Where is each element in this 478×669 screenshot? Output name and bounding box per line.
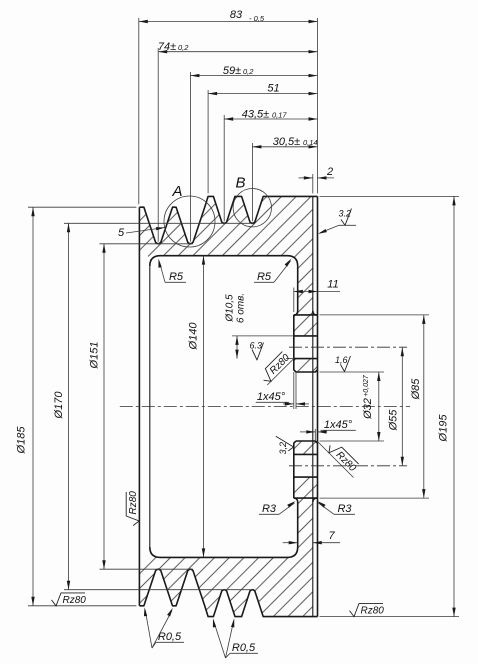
boss left face lower <box>294 441 296 498</box>
hatching boss band below bore <box>294 441 318 454</box>
ext line O185 bottom <box>28 605 136 607</box>
web right fillet to boss bottom <box>313 498 317 502</box>
detail circle A <box>164 196 215 247</box>
boss top surface O85 <box>294 314 318 316</box>
bore top edge O32 with chamfers <box>296 370 318 372</box>
bolt hole top edge (lower hole) <box>294 453 318 455</box>
hatching rim+web top section <box>139 196 317 336</box>
svg-text:1,6: 1,6 <box>335 355 348 365</box>
roughness Rz80 leader at lower bore corner <box>318 442 354 478</box>
svg-text:3.2: 3.2 <box>339 209 352 219</box>
ext line hole bottom edge left <box>286 358 294 360</box>
roughness 3,2 boss left face (rotated) <box>276 436 294 451</box>
svg-text:11: 11 <box>327 279 338 291</box>
roughness Rz80 leader at upper hole corner <box>267 359 294 385</box>
svg-text:0,14: 0,14 <box>303 138 318 147</box>
svg-text:74±: 74± <box>158 41 176 53</box>
boss bottom surface O85 <box>294 497 318 499</box>
svg-text:59±: 59± <box>223 65 241 77</box>
svg-text:2: 2 <box>326 166 333 178</box>
svg-text:Rz80: Rz80 <box>63 595 87 606</box>
recess face / web right face line <box>312 196 314 616</box>
ext line O85 bottom right <box>320 497 430 499</box>
svg-text:5: 5 <box>118 227 125 239</box>
cavity top surface O140 <box>150 256 298 266</box>
svg-text:51: 51 <box>267 83 279 95</box>
bolt hole bottom edge (upper hole) <box>294 358 318 360</box>
bolt hole bottom edge (lower hole) <box>294 476 318 478</box>
svg-text:83: 83 <box>230 9 243 21</box>
dim 2 line <box>299 177 313 179</box>
svg-text:3,2: 3,2 <box>278 442 288 455</box>
roughness Rz80 left face (rotated) <box>126 491 139 526</box>
svg-text:7: 7 <box>328 530 335 542</box>
svg-text:6 отв.: 6 отв. <box>236 293 247 323</box>
cavity bottom surface O140 <box>150 547 298 557</box>
svg-text:Ø32: Ø32 <box>362 398 374 420</box>
web left face lower <box>294 498 298 547</box>
roughness 3.2 top right <box>341 209 352 226</box>
dim O10.5 line <box>236 336 238 359</box>
svg-text:R0,5: R0,5 <box>232 642 256 654</box>
bore bottom edge O32 with chamfers <box>296 441 318 443</box>
hatching boss band above bore <box>294 359 318 372</box>
ext line groove1 center <box>157 48 159 242</box>
svg-text:R0,5: R0,5 <box>158 631 182 643</box>
ext line right face top <box>317 18 319 193</box>
dim 74 line <box>158 51 317 53</box>
dim O55 line <box>401 347 403 466</box>
dim 43.5 line <box>224 118 317 120</box>
svg-text:0,2: 0,2 <box>178 43 189 52</box>
part axis centerline <box>120 406 410 408</box>
svg-text:1x45°: 1x45° <box>257 391 286 403</box>
ext line O151 bottom <box>100 568 194 570</box>
hatching rim+web bottom section <box>139 477 317 616</box>
web right fillet to boss top <box>313 311 317 315</box>
roughness 6.3 at hole <box>252 343 264 361</box>
pulley outer profile bottom (grooves) <box>139 569 317 616</box>
roughness 1,6 on bore ext line <box>341 356 351 372</box>
upper bolt hole centerline <box>289 346 407 348</box>
ext line O151 top <box>100 243 194 245</box>
right face line <box>317 196 319 616</box>
ext line O32 top right <box>320 371 385 373</box>
ext line groove4 center <box>251 143 253 221</box>
ext line hole top edge left <box>232 335 294 337</box>
svg-text:Ø85: Ø85 <box>410 378 422 401</box>
ext line O195 top right <box>320 195 460 197</box>
dim O32 line <box>378 372 380 441</box>
ext line O170 bottom <box>64 589 253 591</box>
dim 51 line <box>208 93 317 95</box>
dim 7 line <box>283 542 298 544</box>
dim 30.5 line <box>252 146 317 148</box>
svg-text:R3: R3 <box>337 503 352 515</box>
ext line groove3 center <box>223 115 225 221</box>
svg-text:B: B <box>235 175 245 192</box>
ext line O32 bottom right <box>320 440 385 442</box>
ext line left face top <box>138 18 140 204</box>
svg-text:43,5±: 43,5± <box>242 109 269 121</box>
svg-text:Ø195: Ø195 <box>438 414 450 443</box>
svg-text:0,2: 0,2 <box>243 67 254 76</box>
svg-text:0,17: 0,17 <box>272 111 287 120</box>
dim O195 line <box>453 196 455 616</box>
ext line O170 top <box>64 222 253 224</box>
dim O140 line <box>203 256 205 558</box>
svg-text:Rz80: Rz80 <box>128 491 139 515</box>
boss left face upper <box>294 315 296 372</box>
svg-text:R5: R5 <box>257 271 272 283</box>
pulley outer profile top (grooves) <box>139 196 317 243</box>
ext line O85 top right <box>320 314 430 316</box>
svg-text:30,5±: 30,5± <box>273 136 300 148</box>
svg-text:A: A <box>171 183 182 200</box>
roughness Rz80 at upper hole (ascending 45deg) <box>259 351 293 385</box>
svg-text:+0,027: +0,027 <box>363 374 370 397</box>
ext line boss left for dim 11 <box>293 288 295 313</box>
bolt hole top edge (upper hole) <box>294 335 318 337</box>
svg-text:R5: R5 <box>169 271 184 283</box>
svg-text:Ø185: Ø185 <box>16 426 28 455</box>
detail circle B <box>233 189 271 227</box>
dim O85 line <box>423 315 425 498</box>
svg-text:Ø55: Ø55 <box>388 409 400 432</box>
svg-text:- 0,5: - 0,5 <box>249 14 265 23</box>
dim O151 line <box>103 244 105 569</box>
svg-text:1x45°: 1x45° <box>324 419 353 431</box>
roughness Rz80 bottom-left on O185 line <box>52 593 87 606</box>
svg-text:Ø170: Ø170 <box>53 391 65 420</box>
ext line O185 top <box>28 206 136 208</box>
dim O185 line <box>32 207 34 606</box>
roughness Rz80 bottom-right on O195 line <box>350 604 385 617</box>
web left face upper <box>294 266 298 315</box>
svg-text:Ø140: Ø140 <box>188 322 200 351</box>
lower bolt hole centerline <box>289 465 407 467</box>
svg-text:Ø151: Ø151 <box>89 342 101 370</box>
svg-text:R3: R3 <box>262 503 277 515</box>
svg-text:Ø10,5: Ø10,5 <box>225 294 236 323</box>
ext line groove2 center <box>189 72 191 242</box>
svg-text:Rz80: Rz80 <box>361 606 385 617</box>
ext line O195 bottom right <box>320 616 460 618</box>
dim 59 line <box>190 75 317 77</box>
ext line step 51 <box>207 90 209 193</box>
ext line lip inner <box>312 174 314 193</box>
svg-text:6.3: 6.3 <box>250 341 263 351</box>
dim 11 line <box>294 291 340 293</box>
dim 5 leader <box>126 228 165 234</box>
dim 83-0.5 line <box>139 21 318 23</box>
rim inner wall edge (cavity left) <box>149 266 151 547</box>
left face line <box>138 207 140 606</box>
roughness Rz80 at lower bore corner (descending 45deg) <box>326 440 360 474</box>
dim O170 line <box>68 223 70 589</box>
